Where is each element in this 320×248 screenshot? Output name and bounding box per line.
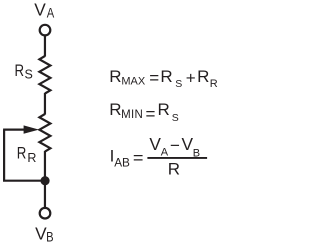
- svg-text:A: A: [47, 5, 55, 20]
- svg-text:=: =: [133, 149, 144, 167]
- svg-text:S: S: [25, 67, 33, 81]
- svg-text:MAX: MAX: [121, 76, 145, 88]
- svg-text:+: +: [186, 68, 196, 87]
- svg-text:MIN: MIN: [121, 109, 143, 121]
- svg-text:R: R: [15, 61, 25, 80]
- svg-text:R: R: [210, 78, 218, 90]
- svg-text:B: B: [46, 229, 53, 244]
- svg-text:S: S: [175, 78, 182, 90]
- svg-text:R: R: [158, 100, 170, 119]
- svg-text:S: S: [172, 112, 179, 124]
- svg-text:R: R: [197, 67, 209, 86]
- svg-text:=: =: [149, 69, 159, 88]
- svg-text:V: V: [182, 134, 194, 154]
- svg-text:R: R: [160, 67, 172, 86]
- svg-text:R: R: [17, 144, 27, 163]
- svg-text:AB: AB: [114, 155, 130, 169]
- svg-text:R: R: [109, 100, 121, 119]
- svg-text:−: −: [170, 136, 180, 155]
- svg-text:V: V: [34, 0, 46, 20]
- svg-text:=: =: [146, 104, 156, 123]
- svg-text:V: V: [35, 224, 47, 244]
- svg-text:R: R: [27, 151, 36, 165]
- svg-text:A: A: [161, 147, 169, 159]
- svg-text:R: R: [109, 67, 121, 86]
- svg-text:V: V: [149, 134, 161, 154]
- svg-text:R: R: [168, 160, 180, 179]
